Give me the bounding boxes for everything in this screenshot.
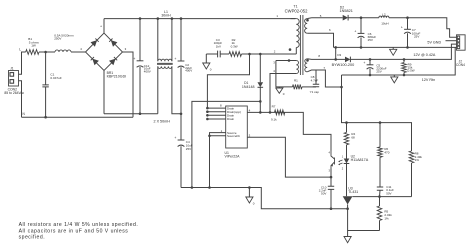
svg-text:30mH: 30mH xyxy=(161,14,171,18)
wire C8 bottom xyxy=(315,86,317,88)
svg-text:R1: R1 xyxy=(294,78,298,82)
wire C2 bottom lead xyxy=(180,67,182,114)
wire 12V rtn rail to J2 pin4 xyxy=(342,47,456,75)
capacitor C10 xyxy=(328,186,334,189)
resistor B1 xyxy=(26,50,39,55)
wire gnd to R1 xyxy=(276,86,293,88)
svg-text:BYW100-200: BYW100-200 xyxy=(332,63,355,67)
svg-text:0.3W: 0.3W xyxy=(231,44,238,48)
bridge diode D top-right xyxy=(111,40,118,47)
op-amp U1 VIPer22A box xyxy=(226,106,248,148)
wire gnd stem primary xyxy=(248,188,250,198)
wire pin1 source xyxy=(210,133,226,136)
svg-text:50V: 50V xyxy=(321,192,326,196)
wire C1 bottom lead xyxy=(45,87,47,117)
svg-text:25V: 25V xyxy=(376,70,381,74)
wire TL431 ref line xyxy=(353,196,412,198)
diode D1 xyxy=(258,82,264,87)
wire C1 top lead xyxy=(45,52,47,85)
wire C12 top lead xyxy=(139,19,141,61)
inductor L1 top winding xyxy=(158,59,172,61)
node C12 top xyxy=(139,17,142,20)
wire aux pin3 top xyxy=(276,60,296,62)
inductor L1 core xyxy=(157,63,173,64)
svg-text:Drain: Drain xyxy=(227,117,235,121)
transformer T1 primary winding xyxy=(296,19,299,48)
svg-text:25V: 25V xyxy=(414,35,419,39)
wire drain stub 1 xyxy=(207,107,225,109)
svg-text:1%: 1% xyxy=(415,158,420,162)
wire J1 pin2 to N rail xyxy=(19,81,22,118)
wire source net line xyxy=(192,101,260,187)
svg-text:D3: D3 xyxy=(337,53,341,57)
wire R1 to C8 xyxy=(302,86,316,88)
ground 0 snubber xyxy=(203,63,210,69)
capacitor C5 xyxy=(367,64,374,66)
wire R6 top lead xyxy=(379,123,381,147)
wire top DC rail xyxy=(104,18,295,20)
svg-text:+: + xyxy=(100,24,102,28)
wire C8 top lead xyxy=(315,70,317,84)
svg-text:+: + xyxy=(133,57,135,61)
wire C2 top lead xyxy=(180,19,182,61)
transformer T1 secondary 12V winding xyxy=(305,59,307,72)
resistor R7 xyxy=(275,110,285,115)
wire gnd stem 5VGND xyxy=(392,47,394,49)
wire C6 bottom lead xyxy=(360,37,362,47)
wire R1 gnd stem xyxy=(278,87,280,88)
wire R5 bottom lead xyxy=(379,221,381,231)
resistor R8 xyxy=(409,151,414,163)
transformer T1 secondary 5V winding xyxy=(305,19,308,34)
capacitor C4 xyxy=(178,139,185,141)
svg-text:CON4: CON4 xyxy=(456,63,465,67)
svg-text:250V: 250V xyxy=(54,37,62,41)
svg-text:+: + xyxy=(354,30,356,34)
wire primary bottom bend xyxy=(295,48,297,55)
svg-text:specified.: specified. xyxy=(19,235,46,241)
wire 12V rail to J2 pin3 xyxy=(350,44,456,59)
capacitor C8 xyxy=(313,84,319,87)
wire C3 to R2 xyxy=(220,53,229,55)
wire drain stub 2 xyxy=(207,111,225,113)
resistor R1 xyxy=(293,85,303,90)
wire R5 top lead xyxy=(379,197,381,206)
svg-text:12V @ 0.42A: 12V @ 0.42A xyxy=(413,53,436,57)
resistor R2 xyxy=(229,52,242,57)
svg-text:1kV: 1kV xyxy=(216,44,221,48)
connector J2 xyxy=(457,35,466,50)
resistor R5 xyxy=(377,206,382,221)
wire C6 top lead xyxy=(360,18,362,34)
wire TL431 anode to R5 bottom xyxy=(348,205,380,231)
svg-text:L: L xyxy=(19,48,21,52)
wire C5 bottom lead xyxy=(369,69,371,75)
wire opto emitter xyxy=(330,169,332,178)
inductor L2 xyxy=(379,16,389,18)
wire C10 top lead xyxy=(330,177,332,186)
opto U2 light arrows xyxy=(339,160,343,165)
wire bridge plus riser xyxy=(103,19,105,33)
svg-text:All resistors are 1/4 W 5% unl: All resistors are 1/4 W 5% unless specif… xyxy=(19,222,139,228)
wire source pins to gnd bus xyxy=(209,136,211,188)
wire pin6 to 5VGND rail xyxy=(307,33,333,47)
ground 5VGND xyxy=(390,49,397,55)
wire C5 top lead xyxy=(369,59,371,64)
wire R4 to opto LED xyxy=(346,145,348,159)
svg-text:VIPer22A: VIPer22A xyxy=(225,155,241,159)
wire snubber left xyxy=(206,53,217,55)
fuse F1 xyxy=(55,50,71,52)
wire C7 bottom lead xyxy=(407,33,409,47)
svg-text:CWP02-052: CWP02-052 xyxy=(285,8,308,13)
wire R2 to T1 pin2 xyxy=(242,53,291,55)
wire R6 to C11 xyxy=(379,157,381,187)
opto U2 phototransistor xyxy=(331,151,335,169)
svg-text:0.5W: 0.5W xyxy=(408,69,415,73)
wire gnd stem rtn xyxy=(393,75,395,77)
diode U2 LED xyxy=(344,159,350,164)
svg-text:KBP210GDI: KBP210GDI xyxy=(107,75,127,79)
svg-text:2 X 50mH: 2 X 50mH xyxy=(154,120,171,124)
wire aux pin3 down xyxy=(275,61,277,87)
svg-text:1W: 1W xyxy=(31,43,36,47)
svg-text:+: + xyxy=(363,61,365,65)
ground 0 R1 xyxy=(276,88,283,93)
svg-text:All capacitors are in uF and 5: All capacitors are in uF and 50 V unless xyxy=(19,229,129,235)
wire choke bottom-left lead xyxy=(157,66,159,113)
wire pin2 sourcefb xyxy=(210,135,226,137)
wire 5V to J2 pin1 xyxy=(389,18,457,38)
wire DC minus bus xyxy=(104,113,158,115)
svg-text:J1: J1 xyxy=(10,66,14,70)
bridge diode D bottom-right xyxy=(109,59,116,66)
wire drain pins to pin2 node xyxy=(207,54,249,108)
wire to primary top xyxy=(291,18,297,20)
svg-text:50V: 50V xyxy=(386,191,391,195)
capacitor C12 xyxy=(137,60,144,62)
svg-text:Y1 cap: Y1 cap xyxy=(310,90,320,94)
wire N bottom rail xyxy=(22,116,134,118)
diode D2 xyxy=(343,15,348,21)
capacitor C1 xyxy=(42,85,48,87)
wire choke top-right lead xyxy=(171,19,173,62)
wire D2 to L2 xyxy=(348,17,379,19)
wire aux pin4 to VDD line xyxy=(270,74,296,113)
svg-text:5V GND: 5V GND xyxy=(427,40,441,44)
wire R9 bottom lead xyxy=(403,73,405,76)
capacitor C3 xyxy=(218,51,221,58)
wire gnd stem TL431 xyxy=(347,231,349,237)
wire snubber gnd stem xyxy=(205,54,207,63)
capacitor C2 xyxy=(178,60,185,62)
svg-text:400V: 400V xyxy=(144,70,151,74)
svg-text:400V: 400V xyxy=(185,69,192,73)
capacitor C7 xyxy=(404,28,411,30)
inductor L1 bottom winding xyxy=(158,66,172,68)
wire 5VGND to pin8 link xyxy=(335,47,337,59)
svg-text:R7: R7 xyxy=(272,104,276,108)
wire D1 cathode lead xyxy=(259,87,261,112)
ground secondary xyxy=(344,237,351,243)
svg-text:+: + xyxy=(174,57,176,61)
transformer T1 aux winding xyxy=(296,61,298,74)
svg-text:1N4148: 1N4148 xyxy=(242,85,255,89)
capacitor C11 xyxy=(377,187,383,190)
wire pin4 VDD to R7 to opto collector xyxy=(247,112,331,150)
wire R4 top lead xyxy=(346,123,348,133)
resistor R4 xyxy=(344,132,349,144)
wire pin7 xyxy=(307,70,341,87)
wire drain stub 3 xyxy=(207,114,225,116)
wire choke top-left lead xyxy=(157,19,159,62)
wire R9 top lead xyxy=(403,59,405,62)
wire bridge AC2 to N rail xyxy=(123,52,134,117)
svg-text:4.7nF: 4.7nF xyxy=(311,79,319,83)
bridge rectifier BR1 diamond xyxy=(86,33,123,71)
wire C10 bottom lead xyxy=(330,189,332,208)
transistor U3 TL431 xyxy=(343,196,353,204)
svg-text:TL431: TL431 xyxy=(348,190,358,194)
wire bridge minus riser xyxy=(103,71,105,114)
svg-text:25V: 25V xyxy=(186,147,191,151)
svg-text:25V: 25V xyxy=(368,38,373,42)
wire drain stub 4 xyxy=(207,118,225,120)
svg-text:68: 68 xyxy=(351,136,355,140)
svg-text:+: + xyxy=(174,136,176,140)
svg-text:1N5821: 1N5821 xyxy=(340,9,353,13)
wire C4 top lead xyxy=(180,114,182,140)
wire B1 to fuse xyxy=(39,51,55,53)
ground 12V rtn xyxy=(391,77,398,83)
wire J2 pin2 5VGND stub xyxy=(446,40,457,42)
wire R8 bottom lead xyxy=(411,163,413,197)
svg-text:L2: L2 xyxy=(382,12,386,16)
transformer T1 core xyxy=(300,15,303,75)
svg-text:1%: 1% xyxy=(384,216,389,220)
bridge diode D bottom-left xyxy=(92,59,99,66)
resistor R6 xyxy=(378,147,383,157)
wire sec top bend xyxy=(307,17,311,20)
wire pin3 FB to opto emitter xyxy=(247,137,331,177)
svg-text:+: + xyxy=(401,26,403,30)
ground 0 primary xyxy=(246,197,253,203)
bridge diode D top-left xyxy=(91,40,98,47)
diode D3 xyxy=(345,57,350,63)
wire sec 5V to D2 xyxy=(312,17,343,19)
wire pin8 to D3 xyxy=(307,58,345,61)
wire C7 top lead xyxy=(407,18,409,30)
svg-text:12V Rtn: 12V Rtn xyxy=(422,78,435,82)
capacitor C6 xyxy=(358,32,365,34)
svg-text:SourceFb: SourceFb xyxy=(227,134,240,138)
wire C8 top to pin7 xyxy=(316,69,325,71)
wire J1 pin1 to L line xyxy=(19,52,26,74)
svg-text:0.047uF: 0.047uF xyxy=(50,76,61,80)
wire primary bottom xyxy=(291,53,297,55)
wire D1 anode lead xyxy=(259,54,261,82)
svg-text:H11A817A: H11A817A xyxy=(351,158,369,162)
wire fuse to bridge xyxy=(71,51,86,53)
wire C12 bottom lead xyxy=(139,67,141,114)
svg-text:10uH: 10uH xyxy=(381,22,388,26)
resistor R9 xyxy=(402,63,407,73)
wire choke bottom-right lead xyxy=(172,66,181,113)
wire C4 bottom lead xyxy=(180,146,182,187)
wire C11 bottom lead xyxy=(379,190,382,196)
wire LED cathode to TL431 xyxy=(346,164,348,197)
connector J1 xyxy=(9,71,19,87)
wire pin7 feedback line to R8 xyxy=(342,75,412,151)
svg-text:470: 470 xyxy=(384,150,389,154)
svg-text:9.1k: 9.1k xyxy=(271,117,277,121)
wire primary source bus xyxy=(181,188,348,209)
wire 5VGND rail xyxy=(334,46,457,48)
